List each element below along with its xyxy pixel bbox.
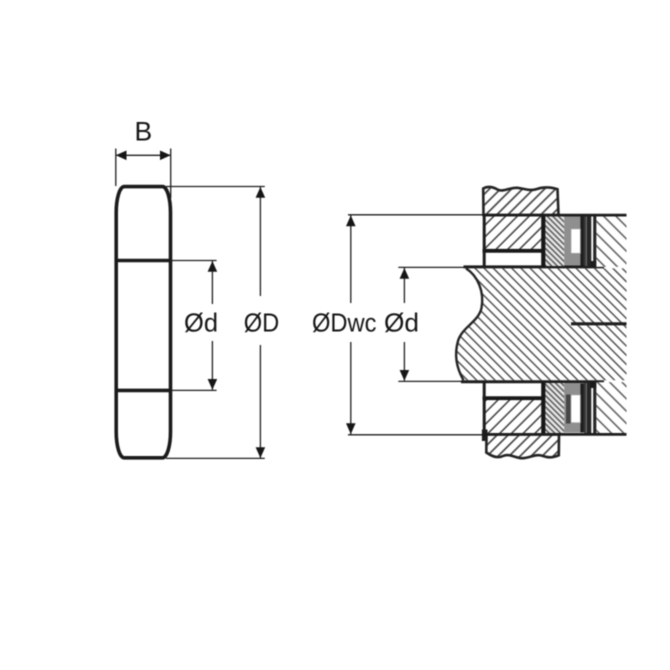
- upper collar block (hatched): [484, 215, 543, 251]
- dimension ODwc dim line upper segment: [350, 215, 352, 303]
- dimension Od(right) dim line lower segment: [403, 342, 405, 381]
- upper left bearing washer (dense hatch): [545, 216, 564, 266]
- lower collar top thick edge: [483, 396, 544, 400]
- dimension OD dim line lower segment: [259, 345, 261, 458]
- dimension Od(right) extension line bottom: [398, 380, 462, 382]
- svg-text:Ød: Ød: [184, 307, 218, 337]
- lower collar corner ink blob: [482, 430, 488, 442]
- dimension Od(right) arrowhead down: [400, 370, 410, 381]
- dimension B arrow line: [117, 154, 171, 156]
- upper collar left edge: [483, 215, 486, 267]
- svg-text:Ød: Ød: [384, 307, 419, 337]
- upper cage block: [564, 217, 584, 266]
- lower right washer inner streak: [586, 383, 587, 433]
- dimension Od(left) arrowhead down: [208, 379, 218, 390]
- upper housing seat face: [593, 215, 596, 266]
- lower right bearing washer (solid dark): [584, 382, 591, 433]
- upper collar bottom thick edge: [483, 249, 544, 253]
- lower roller: [571, 395, 581, 423]
- dimension Od(left) dim line upper segment: [211, 261, 213, 304]
- shaft break (wavy) edge: [456, 268, 482, 380]
- dimension OD extension line top: [166, 186, 265, 188]
- lower housing block (hatched): [596, 382, 626, 434]
- lower housing corner block: [590, 382, 604, 389]
- dimension OD arrowhead up: [256, 187, 266, 198]
- washer outline: [116, 187, 170, 458]
- dimension B extension line left: [115, 149, 117, 187]
- dimension OD dim line upper segment: [259, 187, 261, 296]
- upper roller: [571, 229, 581, 254]
- dimension ODwc extension line bottom: [348, 434, 483, 436]
- dimension Od(left) extension line bottom: [170, 389, 217, 391]
- dimension B arrowhead right: [160, 151, 171, 161]
- dimension Od(right) extension line top: [398, 266, 466, 268]
- dimension OD arrowhead down: [256, 447, 266, 458]
- dimension Od(right) arrowhead up: [400, 268, 410, 279]
- shaft top edge: [464, 265, 605, 268]
- lower collar block (hatched): [484, 398, 543, 434]
- dimension B arrowhead left: [116, 151, 127, 161]
- upper housing corner block: [590, 261, 604, 268]
- upper broken piece above collar: [483, 187, 558, 215]
- dimension ODwc dim line lower segment: [350, 342, 352, 434]
- washer upper bore line: [115, 259, 172, 263]
- lower cage dark bar: [580, 384, 584, 433]
- dimension ODwc arrowhead down: [346, 423, 356, 434]
- dimension B extension line right: [170, 149, 172, 199]
- dimension Od(left) dim line lower segment: [211, 341, 213, 390]
- upper right bearing washer (solid dark): [584, 215, 591, 266]
- assembly bottom boundary line: [483, 433, 627, 436]
- svg-text:B: B: [134, 116, 152, 146]
- lower cage dark column left of roller: [566, 395, 571, 424]
- dimension Od(left) extension line top: [170, 260, 217, 262]
- lower collar left edge: [483, 382, 486, 434]
- upper right washer inner streak: [586, 216, 587, 266]
- lower left bearing washer (dense hatch): [545, 383, 564, 433]
- lower housing seat face: [593, 382, 596, 433]
- dimension ODwc arrowhead up: [346, 215, 356, 226]
- shaft mid dark line: [571, 322, 627, 325]
- dimension ODwc extension line top: [348, 214, 483, 216]
- lower cage block: [564, 384, 584, 433]
- assembly top boundary line: [483, 214, 627, 217]
- shaft (broken left end, hatched): [456, 268, 626, 380]
- dimension OD extension line bottom: [166, 457, 265, 459]
- lower washer/collar thick divider: [541, 382, 545, 434]
- washer lower bore line: [115, 389, 172, 393]
- shaft bottom edge: [461, 380, 604, 383]
- svg-text:ØDwc: ØDwc: [312, 307, 377, 337]
- upper housing block (hatched): [596, 215, 626, 267]
- upper washer/collar thick divider: [541, 215, 545, 267]
- dimension Od(right) dim line upper segment: [403, 268, 405, 303]
- lower broken piece below collar: [486, 434, 559, 458]
- upper cage dark bar: [580, 217, 584, 266]
- svg-text:ØD: ØD: [244, 307, 280, 337]
- dimension Od(left) arrowhead up: [208, 261, 218, 272]
